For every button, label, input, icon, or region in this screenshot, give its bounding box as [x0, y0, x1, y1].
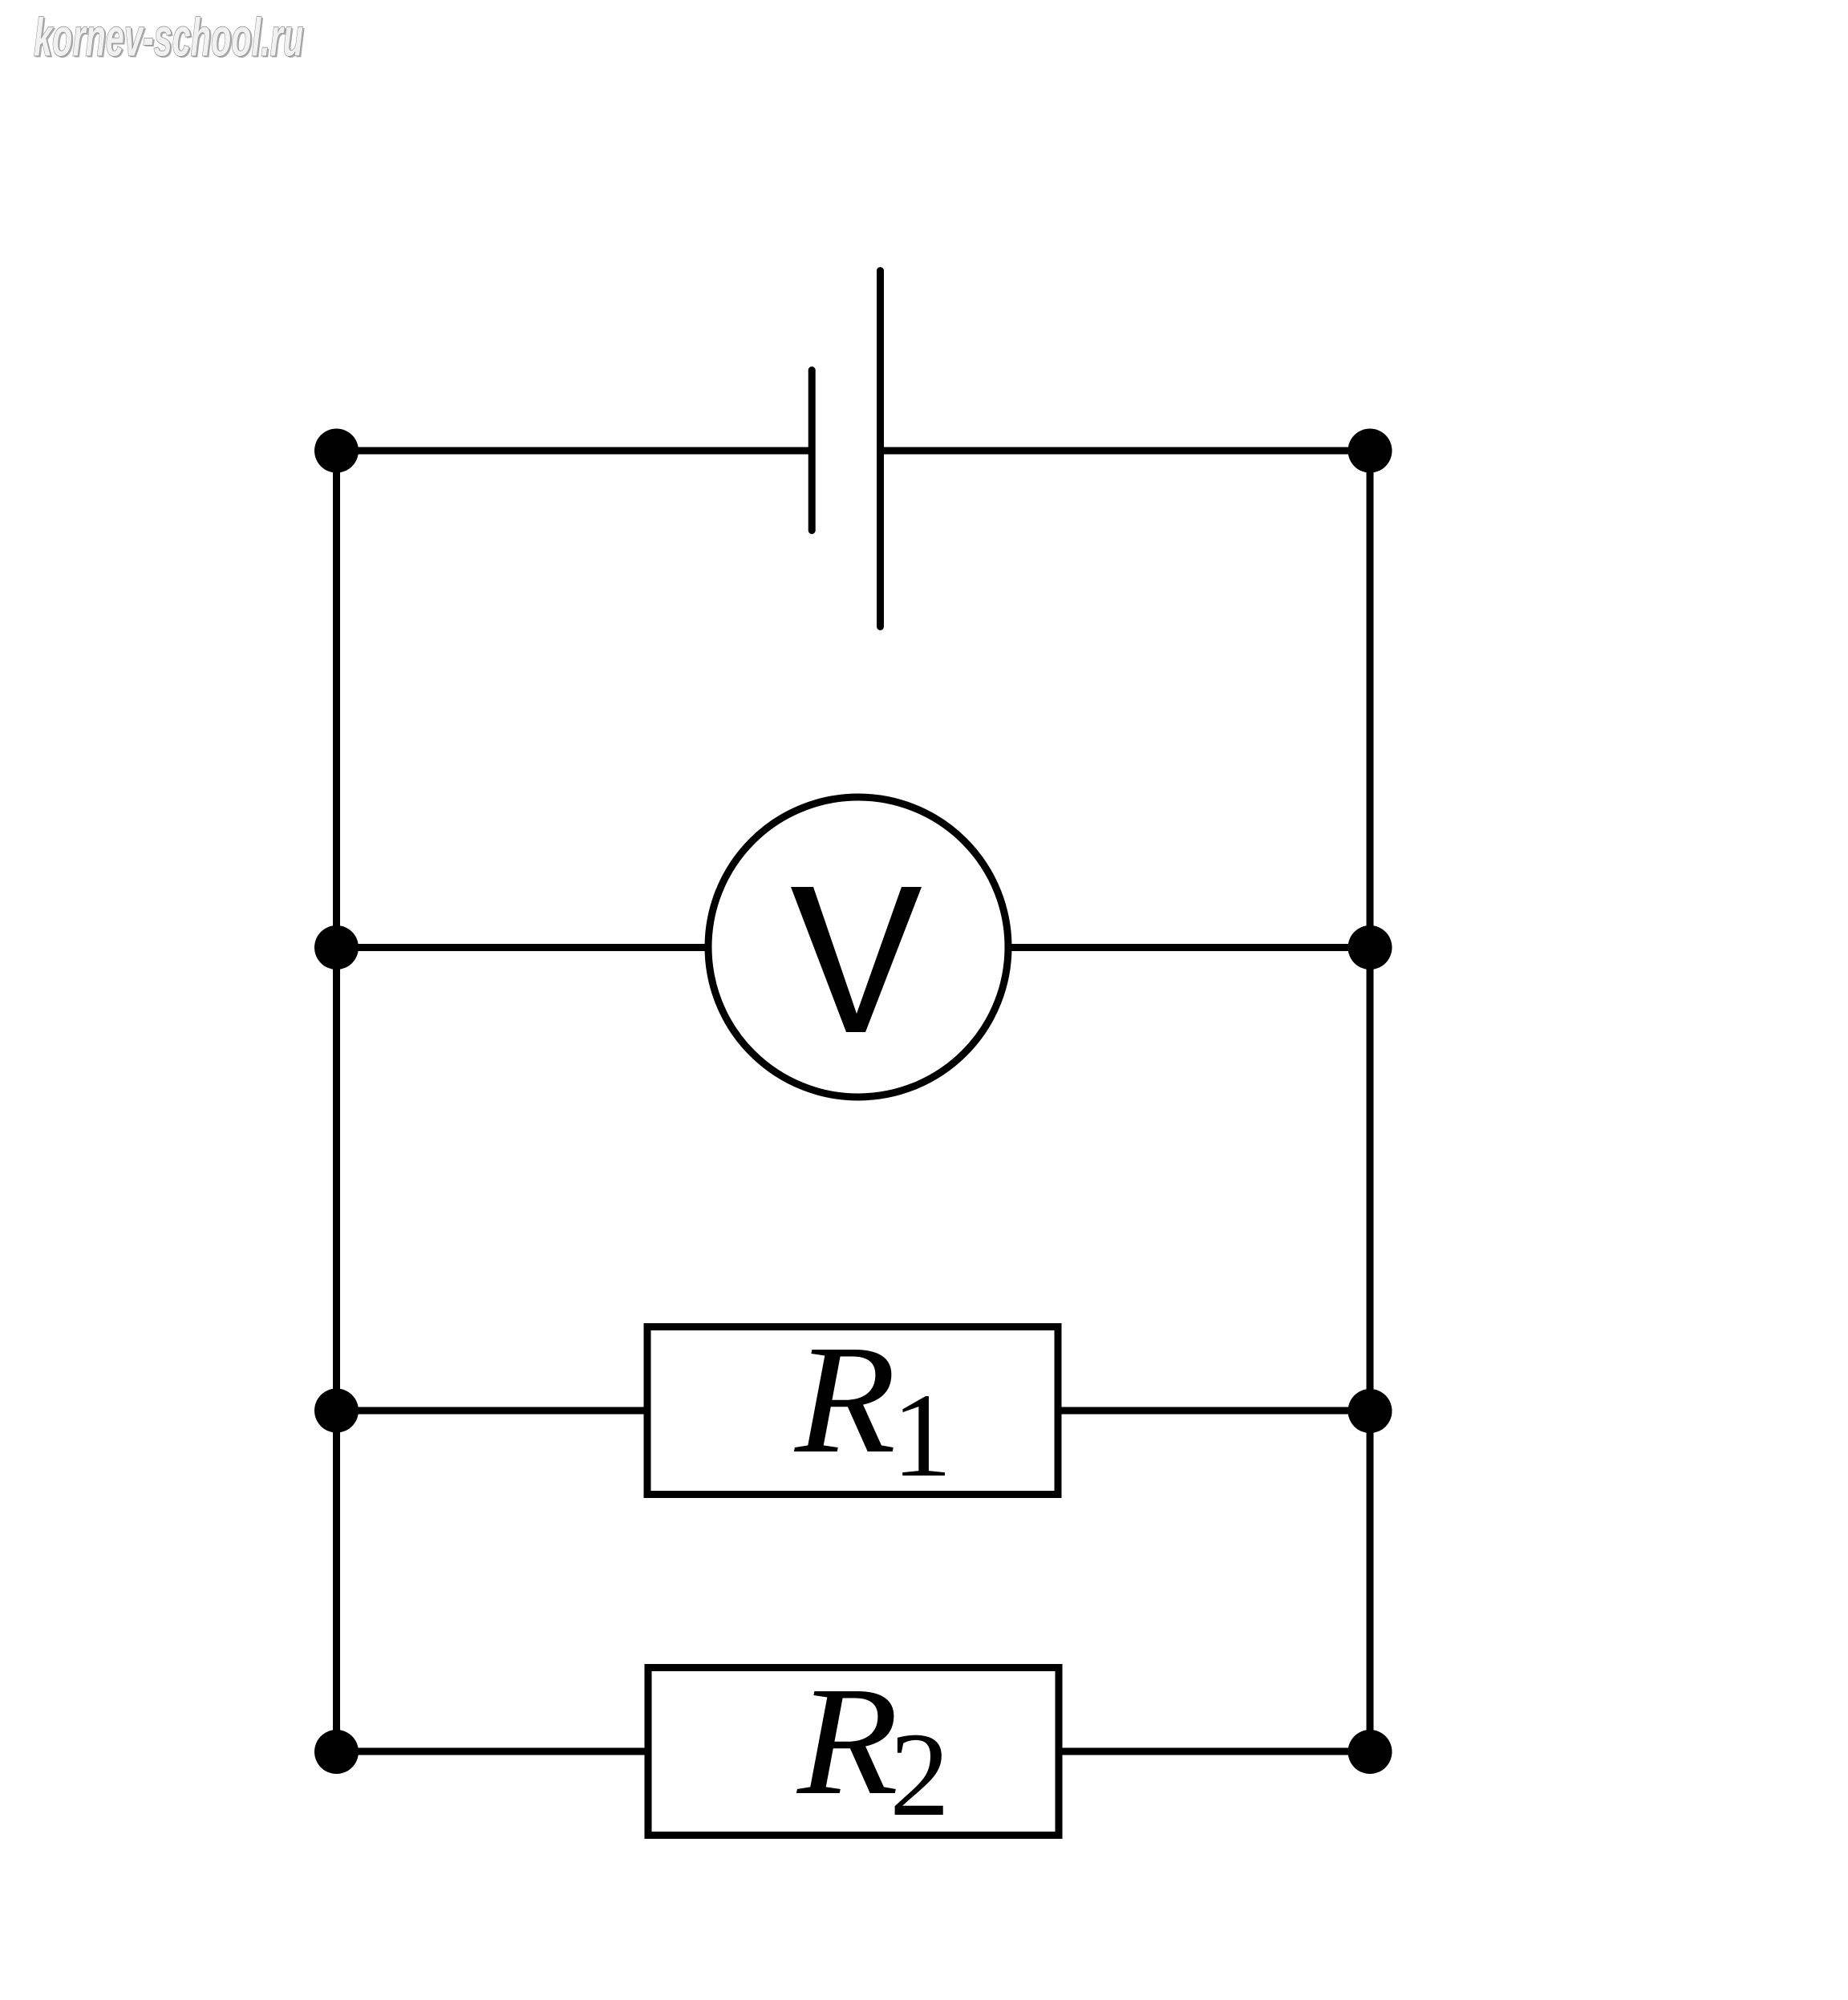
wire R1 right: [1058, 1407, 1370, 1415]
svg-text:1: 1: [892, 1369, 952, 1502]
node voltmeter-right: [1348, 925, 1392, 970]
svg-text:2: 2: [890, 1708, 950, 1841]
wire battery right: [881, 447, 1371, 455]
node top-right: [1348, 429, 1392, 473]
battery cell: long positive plate: [877, 271, 884, 627]
wire voltmeter left: [337, 944, 715, 951]
wire right rail: [1367, 451, 1374, 1752]
node voltmeter-left: [314, 925, 359, 970]
node R2-right: [1348, 1730, 1392, 1774]
voltmeter V: circle body: [708, 797, 1008, 1097]
resistor R1: box: [647, 1327, 1058, 1495]
svg-text:R: R: [793, 1314, 896, 1486]
resistor R2: box: [648, 1668, 1059, 1836]
node R1-right: [1348, 1389, 1392, 1433]
wire left rail: [333, 451, 340, 1752]
svg-text:R: R: [796, 1655, 898, 1828]
svg-text:kornev-school.ru: kornev-school.ru: [34, 8, 303, 68]
node top-left: [314, 429, 359, 473]
voltmeter V: letter V: [791, 887, 922, 1032]
wire R2 left: [337, 1748, 649, 1755]
battery cell: short negative plate: [808, 370, 816, 531]
node R2-left: [314, 1730, 359, 1774]
node R1-left: [314, 1389, 359, 1433]
wire R2 right: [1059, 1748, 1370, 1755]
wire battery left: [337, 447, 813, 455]
wire R1 left: [337, 1407, 648, 1415]
wire voltmeter right: [1003, 944, 1370, 951]
